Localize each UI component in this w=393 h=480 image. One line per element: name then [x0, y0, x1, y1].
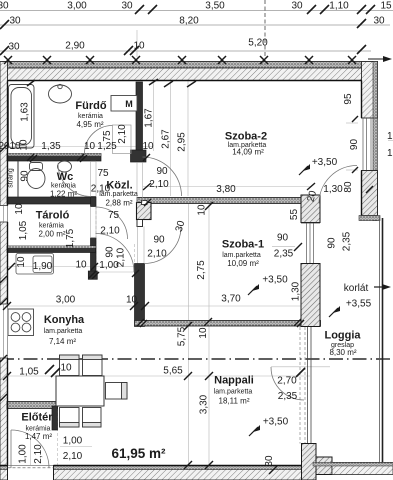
section dash-dot line A-A	[0, 358, 393, 360]
svg-text:10: 10	[198, 327, 209, 339]
svg-text:1,63: 1,63	[20, 102, 31, 122]
wall: left exterior	[0, 62, 8, 480]
wall: right exterior upper (Szoba-2 east)	[362, 62, 378, 119]
svg-text:+3,50: +3,50	[263, 417, 289, 428]
svg-text:80: 80	[343, 181, 354, 193]
svg-text:4,95 m²: 4,95 m²	[76, 120, 103, 129]
door arc: Nappali to Loggia	[271, 367, 304, 400]
svg-text:1,47 m²: 1,47 m²	[25, 432, 52, 441]
room label: Szoba-1	[222, 239, 264, 269]
wall: bottom exterior	[0, 466, 310, 480]
svg-text:1,22 m²: 1,22 m²	[50, 190, 77, 199]
svg-text:Loggia: Loggia	[324, 330, 361, 342]
door arc: Szoba-2 entry	[143, 157, 182, 196]
room label: Wc	[50, 171, 77, 199]
jamb tick marks on walls	[0, 116, 373, 474]
svg-text:2,10: 2,10	[115, 247, 126, 267]
svg-text:55: 55	[289, 209, 300, 221]
dimension texts Furdo chain y146	[0, 141, 154, 152]
svg-text:3,80: 3,80	[216, 184, 236, 195]
svg-text:10: 10	[142, 141, 154, 152]
svg-text:3,70: 3,70	[221, 294, 241, 305]
svg-text:2,10: 2,10	[33, 444, 44, 464]
svg-text:10,09 m²: 10,09 m²	[227, 259, 259, 268]
furniture: chair top-right	[83, 355, 103, 376]
wall: Furdo bottom	[7, 154, 101, 162]
room label: Eloter	[21, 412, 53, 442]
tick marks: dimension slashes	[0, 5, 375, 377]
svg-text:10: 10	[133, 41, 145, 52]
room label: Kozl	[99, 180, 138, 208]
room label: Tarolo	[36, 210, 70, 239]
wall: Konyha/Szoba-1 divider lower	[135, 264, 145, 327]
wall: right exterior block below window	[362, 171, 378, 216]
door opening: Szoba-2 entry jamb lines	[137, 162, 143, 203]
door arc: Tarolo	[96, 207, 128, 239]
svg-text:10: 10	[19, 139, 30, 151]
svg-text:2,10: 2,10	[117, 124, 128, 144]
svg-text:2,10: 2,10	[100, 226, 120, 237]
svg-text:1,00: 1,00	[63, 436, 83, 447]
svg-text:2,90: 2,90	[65, 41, 85, 52]
svg-text:5,75: 5,75	[177, 326, 188, 346]
furniture: dining table	[56, 376, 104, 406]
svg-text:lam.parketta: lam.parketta	[99, 191, 138, 198]
X marks on top wall	[4, 56, 356, 64]
svg-text:2,35: 2,35	[342, 231, 353, 251]
svg-text:90: 90	[327, 237, 338, 249]
svg-text:90: 90	[19, 170, 30, 182]
fixture: washing machine M	[111, 96, 137, 112]
door arc: Szoba-1 entry	[144, 227, 181, 264]
svg-text:strang: strang	[8, 168, 15, 188]
svg-text:10: 10	[197, 204, 208, 216]
svg-text:korlát: korlát	[344, 283, 369, 294]
svg-text:lam.parketta: lam.parketta	[214, 389, 253, 396]
room label: Szoba-2	[225, 131, 267, 157]
furniture: chair top-left	[60, 355, 80, 376]
door arc: Szoba-2 to Loggia	[319, 166, 357, 204]
wall: Eloter top partition	[7, 402, 58, 409]
svg-text:10: 10	[75, 260, 87, 271]
wall: Tarolo bottom	[7, 246, 96, 253]
svg-text:90: 90	[349, 139, 360, 151]
svg-text:75: 75	[102, 130, 113, 142]
wall: Loggia south-west block	[302, 444, 317, 480]
svg-text:2,10: 2,10	[63, 451, 83, 462]
furniture: chair bottom-right	[83, 408, 102, 428]
strong inner edge lines of exterior walls	[0, 81, 362, 466]
room label: Nappali	[214, 375, 254, 406]
svg-text:1,90: 1,90	[33, 261, 53, 272]
svg-text:1,67: 1,67	[144, 108, 155, 128]
svg-text:5,20: 5,20	[248, 38, 268, 49]
svg-text:90: 90	[277, 233, 289, 244]
furniture: chair right	[106, 383, 128, 400]
svg-text:2,35: 2,35	[278, 391, 298, 402]
svg-text:2,75: 2,75	[196, 260, 207, 280]
svg-text:75: 75	[108, 210, 120, 221]
elevation flag: Szoba-1	[248, 284, 259, 295]
svg-text:2,70: 2,70	[277, 376, 297, 387]
dimension texts row3	[8, 38, 268, 53]
wall: Furdo/Szoba-2 divider vertical	[136, 82, 143, 152]
door arc: Furdo	[85, 125, 132, 154]
svg-text:30: 30	[8, 42, 20, 53]
svg-text:3,50: 3,50	[205, 1, 225, 12]
svg-text:18,11 m²: 18,11 m²	[219, 397, 250, 406]
wall: Wc/Tarolo divider	[7, 197, 96, 204]
svg-text:2,35: 2,35	[274, 249, 294, 260]
door opening: entry in bottom wall	[8, 466, 54, 480]
svg-text:+3,50: +3,50	[312, 157, 338, 168]
svg-text:kerámia: kerámia	[78, 113, 103, 120]
strang shaft east wall line	[17, 161, 19, 197]
svg-text:1,30: 1,30	[291, 281, 302, 301]
svg-text:15: 15	[380, 1, 392, 12]
svg-text:Szoba-2: Szoba-2	[225, 131, 267, 143]
room label: Konyha	[44, 314, 85, 346]
svg-text:Közl.: Közl.	[106, 180, 132, 192]
svg-text:30: 30	[0, 1, 9, 12]
svg-text:7,14 m²: 7,14 m²	[49, 337, 76, 346]
svg-text:30: 30	[9, 16, 21, 27]
arrow: top right dimension	[368, 56, 392, 62]
pillar at Kozl/Szoba-1/Szoba-2 corner	[137, 203, 152, 220]
wall: top exterior stipple band	[2, 62, 378, 69]
svg-text:1,25: 1,25	[97, 141, 117, 152]
svg-text:+3,50: +3,50	[262, 275, 288, 286]
svg-text:Fürdő: Fürdő	[75, 100, 106, 112]
projection dashed line top x265	[264, 0, 266, 58]
wall: Szoba-1 bottom	[135, 321, 321, 327]
dimension texts row1	[0, 1, 392, 12]
svg-text:2,67: 2,67	[160, 129, 171, 149]
svg-text:30: 30	[121, 1, 133, 12]
window: Szoba-2 east wall	[362, 118, 378, 171]
dimension texts row2	[9, 16, 385, 27]
door opening: Tarolo east jambs	[91, 207, 97, 239]
fixture: bathtub	[9, 85, 35, 149]
window: Tarolo left wall	[0, 206, 8, 223]
svg-text:+3,55: +3,55	[346, 299, 372, 310]
tick marks below top wall inner edge	[27, 79, 196, 87]
svg-text:Konyha: Konyha	[44, 314, 85, 326]
svg-text:Nappali: Nappali	[214, 375, 254, 387]
svg-text:30: 30	[264, 455, 275, 467]
svg-text:kerámia: kerámia	[51, 183, 76, 190]
wall: Eloter east stub	[52, 406, 58, 430]
svg-text:5,65: 5,65	[163, 366, 183, 377]
door arc: Konyha entry	[96, 234, 135, 273]
svg-text:1,: 1,	[387, 131, 393, 142]
svg-text:10: 10	[126, 295, 138, 306]
room label: Furdo	[75, 100, 106, 129]
svg-text:M: M	[125, 99, 133, 109]
elevation flag: Szoba-2	[299, 164, 310, 175]
window: Konyha left wall	[0, 304, 8, 358]
svg-text:3,00: 3,00	[56, 295, 76, 306]
elevation flag: Nappali	[249, 425, 260, 436]
svg-text:Előtér: Előtér	[21, 412, 53, 424]
svg-text:1,05: 1,05	[18, 220, 29, 240]
railing: Loggia east korlat	[379, 218, 381, 462]
svg-text:2,88 m²: 2,88 m²	[105, 199, 132, 208]
svg-text:kerámia: kerámia	[39, 223, 64, 230]
svg-text:75: 75	[97, 168, 109, 179]
svg-text:10: 10	[16, 256, 27, 268]
svg-text:3,30: 3,30	[199, 394, 210, 414]
svg-text:Szoba-1: Szoba-1	[222, 239, 264, 251]
wall: Szoba-1/Szoba-2 divider horizontal	[137, 198, 301, 204]
furniture: chair bottom-left	[60, 408, 80, 428]
svg-text:2,00 m²: 2,00 m²	[38, 230, 65, 239]
wall: Furdo door jamb block	[131, 150, 147, 162]
svg-text:10: 10	[84, 141, 96, 152]
svg-text:3,00: 3,00	[67, 1, 87, 12]
svg-text:lam.parketta: lam.parketta	[44, 328, 83, 335]
svg-text:14,09 m²: 14,09 m²	[232, 148, 264, 157]
svg-text:1,10: 1,10	[329, 1, 349, 12]
door opening: Wc east jambs	[91, 161, 97, 197]
svg-text:lam.parketta: lam.parketta	[222, 252, 261, 259]
door opening: Szoba-1 west jambs	[138, 227, 145, 264]
svg-text:1,35: 1,35	[41, 141, 61, 152]
svg-text:61,95 m²: 61,95 m²	[111, 446, 166, 461]
dimension line row 1 top	[0, 11, 393, 52]
fixture: stove with burners	[8, 309, 34, 336]
svg-text:10: 10	[14, 203, 25, 215]
svg-text:95: 95	[343, 93, 354, 105]
svg-text:1,75: 1,75	[65, 228, 76, 248]
svg-text:90: 90	[156, 166, 168, 177]
svg-text:30: 30	[373, 16, 385, 27]
elevation flag: Loggia	[329, 306, 340, 317]
wall: top exterior hatch body	[2, 68, 378, 81]
wall: Kozl west (Tarolo east)	[91, 197, 97, 207]
wall: Loggia bottom band	[332, 463, 393, 475]
fixture: kitchen counter with sink	[16, 254, 54, 275]
fixture: Wc basin	[58, 161, 72, 172]
door arc+leaf: entry door	[11, 430, 49, 468]
door jamb stub below pillar	[137, 220, 143, 227]
svg-text:1,00: 1,00	[18, 444, 29, 464]
window: Szoba-1 to Loggia	[301, 223, 320, 264]
svg-text:90: 90	[105, 246, 116, 258]
wall: Szoba-1/Loggia divider block	[301, 264, 320, 327]
svg-text:1,: 1,	[387, 148, 393, 159]
fixture: washbasin Furdo	[49, 84, 72, 103]
svg-text:2,10: 2,10	[147, 249, 167, 260]
door arc: Wc	[58, 164, 91, 197]
glass door: Nappali to Loggia	[300, 327, 311, 444]
svg-text:90: 90	[153, 235, 165, 246]
svg-text:8,30 m²: 8,30 m²	[329, 348, 356, 357]
svg-text:1,05: 1,05	[19, 367, 39, 378]
room label: Loggia	[324, 330, 361, 358]
svg-text:Wc: Wc	[57, 171, 74, 183]
svg-text:10: 10	[60, 363, 72, 374]
svg-text:8,20: 8,20	[179, 16, 199, 27]
svg-text:2,95: 2,95	[176, 132, 187, 152]
column: Szoba-2/Loggia corner 20	[301, 195, 320, 223]
svg-text:30: 30	[291, 1, 303, 12]
fixture: Wc toilet	[27, 163, 45, 189]
svg-text:2,10: 2,10	[149, 179, 169, 190]
svg-text:Tároló: Tároló	[36, 210, 70, 222]
svg-text:1,30: 1,30	[323, 184, 343, 195]
